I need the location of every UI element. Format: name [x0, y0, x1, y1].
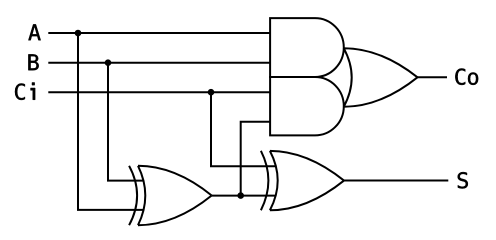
wire [48, 32, 270, 34]
wire [78, 33, 144, 210]
junction [237, 192, 244, 199]
node S [458, 172, 468, 188]
or-gate U4 [344, 48, 418, 107]
wire [211, 92, 276, 166]
junction [75, 30, 82, 37]
wire [48, 91, 270, 93]
and-gate U2 [270, 18, 344, 77]
wire [108, 63, 144, 181]
wire [344, 180, 448, 182]
xor-gate U5 [261, 151, 344, 210]
wire [418, 76, 448, 78]
and-gate U3 [270, 77, 344, 135]
junction [208, 89, 215, 96]
node Ci [15, 83, 35, 100]
wire [241, 122, 270, 196]
node A [28, 24, 40, 40]
node Co [455, 68, 478, 84]
junction [105, 59, 112, 66]
wire [212, 195, 276, 197]
node B [28, 54, 38, 70]
wire [48, 62, 270, 64]
xor-gate U1 [129, 166, 212, 225]
